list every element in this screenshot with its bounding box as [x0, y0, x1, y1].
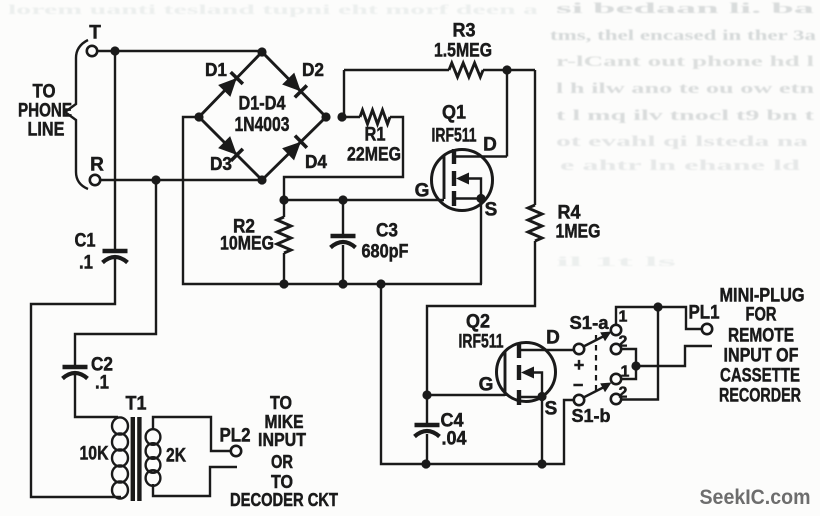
svg-text:r-lCant out phone hd l: r-lCant out phone hd l — [556, 54, 814, 70]
svg-text:IRF511: IRF511 — [432, 126, 477, 147]
transistor Q1 body stub and arrow — [452, 171, 456, 186]
switch S1-b pole circle — [574, 395, 584, 405]
svg-text:IRF511: IRF511 — [459, 332, 504, 353]
wire C2 bottom to transformer primary top — [75, 375, 118, 417]
svg-text:G: G — [415, 181, 430, 202]
svg-text:si bedaan li. ba: si bedaan li. ba — [556, 1, 815, 17]
wire S1-b contact1 up to net B — [621, 366, 636, 379]
wire S1-a contact2 down to net B — [621, 349, 636, 366]
svg-text:R3: R3 — [453, 21, 476, 42]
wire S1-b contact2 up to PL1 net — [621, 307, 658, 400]
op Q1 body circle — [432, 150, 493, 211]
capacitor C4 leads — [426, 395, 428, 423]
svg-text:D1: D1 — [205, 60, 227, 80]
wire T to bridge top — [97, 50, 262, 52]
switch S1-a pole circle — [574, 344, 584, 354]
svg-text:SeekIC.com: SeekIC.com — [700, 485, 811, 509]
transistor Q2 source stub — [517, 390, 521, 405]
svg-text:10K: 10K — [80, 444, 109, 465]
svg-text:OR: OR — [271, 452, 293, 472]
svg-text:PL1: PL1 — [689, 303, 720, 324]
node junction on T wire — [110, 46, 119, 55]
diode D1 — [218, 72, 243, 97]
svg-text:ot evahl qi lsteda na: ot evahl qi lsteda na — [556, 134, 809, 150]
node Q1 source join — [476, 194, 485, 203]
wire Q1 drain up to R3 junction — [506, 70, 508, 157]
svg-text:1.5MEG: 1.5MEG — [434, 41, 492, 62]
svg-text:D3: D3 — [210, 154, 232, 174]
wire bridge right to R3 riser — [343, 70, 345, 117]
svg-text:REMOTE: REMOTE — [728, 326, 794, 347]
node PL1 net junction — [653, 302, 662, 311]
node R3 tap — [337, 112, 346, 121]
svg-text:1N4003: 1N4003 — [235, 114, 290, 136]
resistor R2 — [283, 200, 285, 217]
svg-text:S1-b: S1-b — [572, 406, 611, 426]
node R3/Q1 drain junction — [502, 65, 511, 74]
svg-text:.1: .1 — [79, 253, 93, 274]
wire R junction down to C2 — [75, 180, 156, 365]
transistor Q2 body circle — [497, 343, 556, 402]
wire R4 bottom to Q2 gate node — [427, 241, 535, 395]
capacitor C1 — [103, 251, 128, 263]
capacitor C3 leads — [342, 200, 344, 234]
node rail R2 — [279, 279, 288, 288]
svg-text:680pF: 680pF — [362, 242, 409, 263]
svg-text:LINE: LINE — [28, 120, 65, 141]
svg-text:MINI-PLUG: MINI-PLUG — [720, 286, 805, 307]
transistor Q2 body stub and arrow — [517, 365, 521, 380]
phone line brace — [65, 40, 88, 189]
wire Q2 source to lower rail — [541, 397, 543, 465]
svg-text:1: 1 — [619, 309, 628, 326]
resistor R3 — [344, 69, 449, 71]
node rail drop — [376, 279, 385, 288]
svg-text:T: T — [89, 23, 101, 44]
transformer T1 primary coil 10K — [112, 417, 128, 498]
node rail C3 — [338, 279, 347, 288]
svg-text:il 1t ls: il 1t ls — [556, 255, 678, 270]
svg-text:S: S — [545, 399, 558, 420]
switch S1-a contact 1 circle — [611, 325, 621, 335]
transistor Q1 source stub — [452, 191, 456, 206]
node Q2 gate junction — [422, 390, 431, 399]
svg-text:TO: TO — [33, 82, 56, 103]
transistor Q1 drain stub — [452, 149, 456, 164]
svg-text:2K: 2K — [166, 446, 186, 467]
wire R to bridge bottom — [100, 179, 262, 181]
svg-text:Q2: Q2 — [466, 312, 490, 333]
capacitor C2 — [63, 367, 88, 379]
wire bridge left vertex to ground rail — [183, 117, 482, 284]
node net B junction — [631, 361, 640, 370]
svg-text:INPUT: INPUT — [258, 430, 306, 450]
svg-text:D: D — [546, 328, 560, 349]
svg-text:MIKE: MIKE — [265, 412, 304, 432]
svg-text:S: S — [485, 200, 498, 221]
svg-text:e ahtr ln ehane ld: e ahtr ln ehane ld — [560, 158, 801, 174]
svg-text:t l mq ilv tnocl t9 bn t: t l mq ilv tnocl t9 bn t — [556, 108, 814, 124]
node Q2 source join — [537, 392, 546, 401]
svg-text:D4: D4 — [305, 152, 327, 172]
svg-text:FOR: FOR — [746, 305, 777, 326]
svg-text:TO: TO — [270, 393, 292, 413]
diode D3 — [218, 136, 243, 161]
node gate rail C3 — [338, 195, 347, 204]
wire Q2 gate — [427, 394, 505, 396]
plug PL1 open circle — [702, 324, 712, 334]
node lower rail Q2 source — [537, 459, 546, 468]
svg-text:INPUT OF: INPUT OF — [724, 346, 799, 367]
svg-text:PL2: PL2 — [220, 426, 251, 447]
switch S1-b contact 2 circle — [611, 394, 621, 404]
switch S1-a blade — [584, 335, 608, 347]
node bridge bottom vertex — [257, 175, 266, 184]
svg-text:R: R — [90, 155, 104, 176]
svg-text:22MEG: 22MEG — [347, 145, 401, 166]
svg-text:C1: C1 — [75, 231, 96, 252]
wire R1 right down and left to gate node — [284, 117, 403, 200]
capacitor C3 — [331, 236, 356, 248]
node lower rail C4 — [421, 459, 430, 468]
svg-text:.1: .1 — [95, 373, 109, 394]
wire Q1 source down to rail — [480, 199, 482, 285]
switch S1-b blade — [584, 386, 608, 398]
svg-text:lorem uanti tesland tupni: lorem uanti tesland tupni eht morf deen … — [8, 3, 538, 18]
node junction on R wire — [151, 175, 160, 184]
svg-text:PHONE: PHONE — [18, 101, 72, 122]
wire net B to PL1 sleeve — [636, 346, 712, 366]
svg-text:tms, thel encased in ther 3a: tms, thel encased in ther 3a — [550, 28, 817, 44]
svg-text:R1: R1 — [365, 125, 386, 146]
svg-text:1MEG: 1MEG — [556, 222, 601, 243]
svg-text:G: G — [479, 375, 494, 396]
terminal T open circle — [87, 46, 97, 56]
transistor Q1 gate bar — [443, 156, 446, 199]
transformer T1 core bars — [131, 417, 135, 501]
svg-text:R4: R4 — [558, 203, 581, 224]
diode D4 — [282, 136, 307, 161]
wire secondary bottom to PL2 sleeve — [153, 467, 237, 496]
svg-text:D2: D2 — [302, 60, 324, 80]
wire C1 bottom to left rail to transformer primary bottom — [31, 259, 121, 497]
label TO MIKE INPUT OR TO DECODER CKT — [230, 393, 338, 510]
svg-text:D1-D4: D1-D4 — [239, 94, 286, 115]
svg-text:Q1: Q1 — [442, 103, 466, 124]
svg-text:RECORDER: RECORDER — [719, 386, 801, 407]
capacitor C4 — [415, 425, 440, 437]
svg-text:T1: T1 — [126, 394, 147, 415]
svg-text:C3: C3 — [376, 221, 398, 242]
node bridge top vertex — [257, 47, 266, 56]
svg-text:.04: .04 — [442, 429, 467, 450]
wire rail drop to lower ground rail — [381, 284, 574, 464]
label MINI-PLUG FOR REMOTE INPUT OF CASSETTE RECORDER — [719, 286, 805, 407]
wire gate rail to Q1 gate — [284, 199, 444, 201]
svg-text:DECODER CKT: DECODER CKT — [230, 490, 338, 510]
terminal R open circle — [90, 175, 100, 185]
wire secondary top to PL2 tip — [153, 417, 231, 451]
wire S1-a contact1 to PL1 tip — [616, 307, 701, 329]
resistor R1 — [343, 116, 360, 118]
transistor Q2 drain stub — [517, 343, 521, 358]
transistor Q2 gate bar — [504, 351, 507, 396]
diode D2 — [282, 73, 307, 98]
resistor R4 — [534, 70, 536, 205]
node bridge right vertex — [321, 112, 330, 121]
wire T junction down to C1 — [114, 51, 116, 249]
transformer T1 secondary coil 2K — [146, 429, 161, 486]
wire R3 right to R4 top corner — [483, 69, 535, 71]
node gate rail R2 — [279, 195, 288, 204]
svg-text:S1-a: S1-a — [570, 313, 610, 333]
svg-text:l h ilw ano te ou ow etn: l h ilw ano te ou ow etn — [556, 81, 815, 97]
diode bridge D1-D4 diamond — [199, 52, 326, 180]
node bridge left vertex — [194, 112, 203, 121]
svg-text:−: − — [573, 375, 584, 395]
svg-text:TO: TO — [271, 472, 293, 492]
label TO PHONE LINE — [18, 82, 72, 141]
switch gang dashed link — [595, 335, 597, 391]
svg-text:+: + — [574, 355, 585, 375]
switch S1-b contact 1 circle — [611, 374, 621, 384]
svg-text:10MEG: 10MEG — [220, 234, 274, 255]
plug PL2 open circle — [231, 446, 241, 456]
svg-text:CASSETTE: CASSETTE — [720, 366, 800, 387]
switch S1-a contact 2 circle — [611, 344, 621, 354]
faint page bleed-through text (decorative background) — [8, 1, 817, 270]
svg-text:D: D — [483, 135, 497, 156]
